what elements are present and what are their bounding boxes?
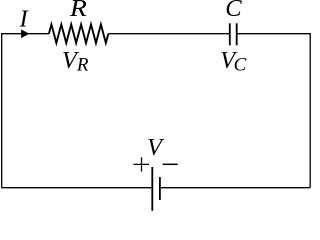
battery long plate (positive) [151,167,153,211]
capacitor C right plate [236,23,238,45]
wire capacitor-to-corner and right side down [237,34,310,188]
svg-text:R: R [69,0,87,22]
battery short plate (negative) [159,177,161,200]
svg-text:I: I [19,6,30,33]
minus sign [163,163,178,165]
wire resistor-to-capacitor [108,33,229,35]
svg-text:VR: VR [62,47,89,76]
svg-text:V: V [147,134,165,161]
wire bottom left segment [2,187,153,189]
current arrow head [21,29,29,38]
plus sign [133,157,149,171]
resistor R zigzag [49,24,108,43]
svg-text:VC: VC [220,47,246,76]
wire bottom right segment [160,187,310,189]
capacitor C left plate [229,23,231,45]
svg-text:C: C [225,0,242,22]
wire left side and top-left segment [2,34,49,188]
